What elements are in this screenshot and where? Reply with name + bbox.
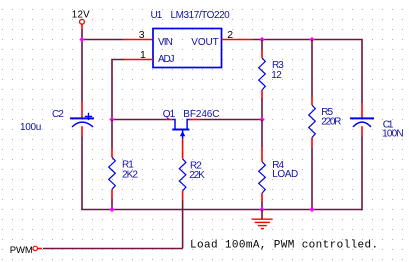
ground: [252, 219, 273, 228]
pin 2 of U1 (VOUT): [222, 39, 253, 41]
svg-text:LM317/TO220: LM317/TO220: [171, 10, 231, 21]
svg-text:LOAD: LOAD: [272, 169, 298, 180]
pin C1 bottom: [361, 126, 363, 136]
resistor R3: [259, 58, 266, 90]
pin C2 top: [81, 102, 83, 118]
op-amp regulator U1 box: [153, 29, 222, 68]
pin R4 bottom: [261, 193, 263, 201]
wire R4 to rail: [261, 202, 263, 210]
wire C1 to rail: [361, 137, 363, 211]
pin C2 bottom: [81, 126, 83, 136]
wire R3 top stub: [261, 40, 263, 51]
wire R1 to rail: [111, 199, 113, 210]
svg-text:100u: 100u: [20, 122, 41, 133]
svg-text:100N: 100N: [382, 128, 403, 139]
svg-text:3: 3: [139, 29, 145, 41]
wire Q1 source to node B: [201, 119, 263, 121]
svg-text:VIN: VIN: [158, 37, 173, 48]
pin R3 top: [261, 50, 263, 58]
pin R5 bottom: [311, 138, 313, 148]
wire ADJ to node A: [112, 59, 124, 120]
wire left rail upper (12V to C2): [81, 39, 83, 102]
junction R5/rail: [309, 207, 314, 212]
pin Q1 source: [189, 119, 200, 121]
wire R5 top stub: [311, 40, 313, 98]
power 12V terminal: [80, 19, 85, 24]
junction 12V/VIN: [79, 37, 84, 42]
pin R1 bottom: [111, 189, 113, 199]
svg-text:2: 2: [227, 29, 233, 41]
wire PWM horizontal: [43, 248, 183, 250]
pin C1 top: [361, 103, 363, 118]
pin R5 top: [311, 97, 313, 105]
transistor Q1 (JFET): [172, 120, 190, 140]
svg-text:PWM: PWM: [10, 245, 33, 256]
wire ground stub: [261, 210, 263, 220]
svg-text:U1: U1: [151, 10, 163, 21]
capacitor C1: [350, 118, 374, 127]
junction node A (ADJ/R1/Q1): [109, 117, 114, 122]
resistor R4: [259, 162, 266, 194]
svg-text:12: 12: [271, 70, 282, 81]
resistor R1: [109, 157, 116, 189]
wire node A to Q1 drain: [111, 119, 166, 121]
wire R5 to rail: [311, 147, 313, 209]
pin R4 top: [261, 147, 263, 162]
pin R2 bottom: [182, 191, 184, 200]
svg-text:1: 1: [140, 49, 146, 61]
svg-text:Load 100mA, PWM controlled.: Load 100mA, PWM controlled.: [190, 240, 379, 252]
svg-text:12V: 12V: [72, 9, 90, 20]
svg-text:220R: 220R: [321, 116, 341, 127]
wire left rail lower (C2 to ground rail): [81, 137, 83, 210]
pin 3 of U1 (VIN): [123, 39, 153, 41]
pin R3 bottom: [261, 90, 263, 98]
junction VOUT/R5: [309, 37, 314, 42]
wire bottom ground rail: [81, 209, 362, 211]
resistor R2: [179, 159, 186, 191]
capacitor C2: [70, 113, 94, 127]
junction R1/rail: [109, 207, 114, 212]
svg-text:VOUT: VOUT: [191, 37, 218, 48]
svg-text:BF246C: BF246C: [183, 109, 219, 120]
pin 12V stub red: [81, 24, 83, 29]
wire R2 to PWM line: [182, 200, 184, 249]
port PWM terminal: [33, 246, 37, 250]
wire 12V rail to VIN: [81, 39, 123, 41]
pin Q1 drain: [166, 119, 172, 121]
svg-text:2K2: 2K2: [122, 170, 138, 181]
wire R3 to node B: [261, 98, 263, 120]
junction node B (Q1/R3/R4): [259, 117, 264, 122]
pin PWM port stub: [37, 248, 42, 250]
svg-text:ADJ: ADJ: [158, 54, 174, 65]
svg-text:22K: 22K: [189, 170, 205, 181]
wire node A to R1: [111, 120, 113, 149]
junction R4/rail/ground: [259, 207, 264, 212]
resistor R5: [309, 105, 316, 138]
pin Q1 gate: [182, 139, 184, 159]
junction VOUT/R3: [259, 37, 264, 42]
svg-text:C2: C2: [52, 109, 64, 120]
svg-text:Q1: Q1: [163, 109, 176, 120]
pin R1 top: [111, 149, 113, 158]
wire node B to R4: [261, 120, 263, 148]
pin 1 of U1 (ADJ): [123, 59, 153, 61]
wire VOUT rail to C1 branch: [253, 39, 363, 103]
wire 12V stub: [81, 29, 83, 40]
